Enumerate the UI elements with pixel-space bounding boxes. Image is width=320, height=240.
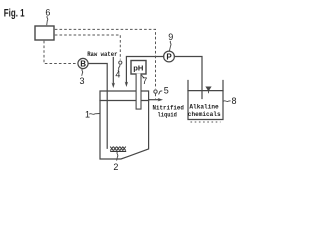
svg-text:3: 3 bbox=[80, 76, 85, 86]
svg-text:6: 6 bbox=[45, 7, 50, 17]
svg-text:Alkaline: Alkaline bbox=[189, 103, 218, 111]
svg-text:Fig. 1: Fig. 1 bbox=[4, 8, 25, 20]
svg-text:9: 9 bbox=[168, 32, 173, 42]
svg-text:B: B bbox=[80, 59, 86, 68]
svg-text:7: 7 bbox=[142, 76, 147, 86]
svg-text:8: 8 bbox=[232, 96, 237, 106]
svg-text:4: 4 bbox=[115, 70, 120, 80]
svg-text:1: 1 bbox=[85, 109, 90, 119]
svg-text:pH: pH bbox=[133, 64, 143, 73]
svg-text:chemicals: chemicals bbox=[188, 111, 221, 119]
svg-text:P: P bbox=[166, 52, 172, 61]
svg-text:5: 5 bbox=[164, 85, 169, 95]
svg-text:liquid: liquid bbox=[158, 112, 177, 120]
svg-text:2: 2 bbox=[113, 162, 118, 172]
svg-text:Raw water: Raw water bbox=[87, 51, 117, 59]
